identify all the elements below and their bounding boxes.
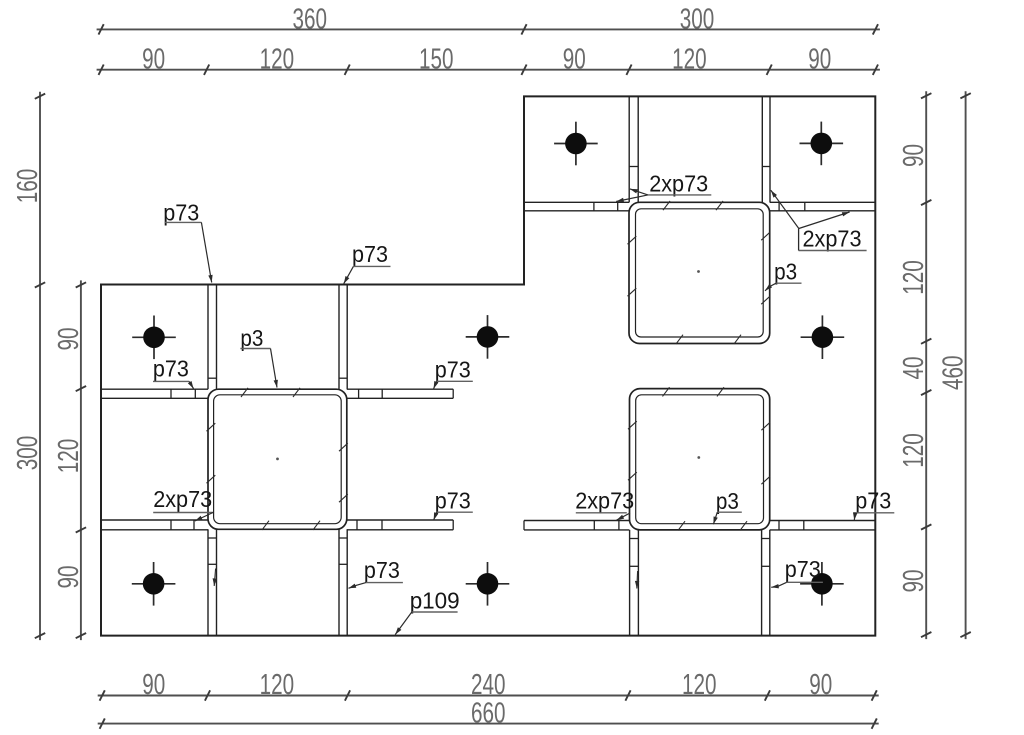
svg-text:120: 120 — [260, 44, 295, 76]
svg-text:90: 90 — [563, 44, 586, 76]
svg-text:2xp73: 2xp73 — [649, 170, 708, 196]
svg-text:120: 120 — [682, 669, 717, 701]
svg-text:2xp73: 2xp73 — [153, 486, 212, 512]
svg-text:2xp73: 2xp73 — [575, 487, 634, 513]
svg-text:p73: p73 — [785, 556, 821, 582]
svg-text:90: 90 — [53, 566, 85, 589]
svg-text:p73: p73 — [153, 356, 189, 382]
svg-text:40: 40 — [898, 357, 930, 380]
svg-text:120: 120 — [898, 260, 930, 295]
svg-text:p73: p73 — [364, 557, 400, 583]
svg-text:120: 120 — [672, 44, 707, 76]
svg-text:300: 300 — [12, 436, 44, 471]
svg-text:150: 150 — [419, 44, 454, 76]
svg-text:160: 160 — [12, 169, 44, 204]
svg-text:120: 120 — [53, 439, 85, 474]
svg-text:90: 90 — [898, 570, 930, 593]
svg-text:2xp73: 2xp73 — [803, 226, 862, 252]
svg-text:120: 120 — [898, 433, 930, 468]
svg-text:120: 120 — [260, 669, 295, 701]
svg-text:90: 90 — [142, 669, 165, 701]
svg-text:360: 360 — [292, 3, 327, 35]
svg-text:90: 90 — [53, 328, 85, 351]
svg-text:p73: p73 — [352, 241, 388, 267]
svg-text:p3: p3 — [774, 259, 797, 285]
svg-text:90: 90 — [809, 669, 832, 701]
svg-text:90: 90 — [142, 44, 165, 76]
svg-text:p73: p73 — [855, 488, 891, 514]
svg-text:p109: p109 — [410, 588, 460, 614]
svg-text:p3: p3 — [716, 488, 739, 514]
svg-text:300: 300 — [680, 3, 715, 35]
svg-text:90: 90 — [898, 144, 930, 167]
svg-text:460: 460 — [938, 355, 970, 390]
svg-text:p73: p73 — [435, 487, 471, 513]
svg-text:660: 660 — [471, 697, 506, 729]
svg-text:90: 90 — [808, 44, 831, 76]
svg-text:p3: p3 — [240, 325, 263, 351]
svg-text:p73: p73 — [435, 356, 471, 382]
